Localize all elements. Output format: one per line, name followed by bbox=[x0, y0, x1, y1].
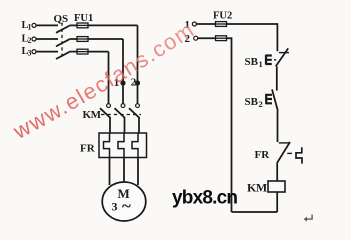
label FU2 bbox=[213, 11, 232, 22]
small gray return-arrow mark bbox=[304, 215, 313, 222]
wire KM coil to bottom bbox=[276, 192, 278, 212]
svg-text:FU2: FU2 bbox=[213, 11, 232, 22]
wire QS pole3 to FU1 bbox=[70, 51, 78, 53]
FR link dash bbox=[287, 152, 292, 154]
switch QS label bbox=[54, 13, 69, 25]
thermal relay FR label bbox=[80, 143, 96, 155]
FR heater element 3 bbox=[132, 133, 138, 158]
KM contact pole 3 bbox=[136, 104, 140, 108]
KM contact pole 2 bbox=[121, 104, 125, 108]
label L3 bbox=[22, 46, 32, 58]
KM contact pole 1 bbox=[107, 104, 111, 108]
svg-text:KM: KM bbox=[83, 109, 102, 121]
fuse FU2-2 bbox=[216, 36, 227, 41]
fuse FU1-1 bbox=[77, 23, 88, 28]
wire FR to motor (left) bbox=[109, 158, 111, 186]
pushbutton SB1 label bbox=[245, 56, 263, 69]
wire L1 to QS bbox=[36, 24, 58, 26]
wire FR to motor (right) bbox=[137, 158, 139, 186]
label L2 bbox=[22, 34, 32, 46]
wire FU1-1 output to corner bbox=[77, 24, 138, 26]
svg-text:3: 3 bbox=[112, 200, 118, 214]
left rail of control loop bbox=[227, 38, 232, 212]
fuse FU1-2 bbox=[77, 37, 88, 42]
wire SB2 to FR contact bbox=[277, 111, 279, 142]
node 2 junction dot bbox=[135, 80, 140, 85]
wire FU1-3 output to corner bbox=[77, 51, 109, 53]
QS blade pole 2 bbox=[56, 39, 70, 46]
SB2 actuator E bbox=[266, 94, 272, 104]
svg-text:QS: QS bbox=[54, 13, 69, 25]
coil KM label (control) bbox=[247, 181, 267, 195]
motor M circle bbox=[102, 182, 146, 221]
wire KM pole3 to FR bbox=[138, 118, 140, 134]
wire KM pole1 to FR bbox=[109, 118, 111, 134]
SB2 NO contact blade bbox=[272, 89, 278, 110]
wire phase2 vertical bbox=[122, 39, 124, 104]
wire FR to KM coil bbox=[276, 163, 278, 181]
motor label 3~ bbox=[112, 197, 132, 216]
terminal 2 label (control) bbox=[185, 33, 191, 45]
thermal contact FR label (control) bbox=[255, 149, 271, 161]
wire QS pole1 to FU1 bbox=[70, 24, 78, 26]
FR heater element 2 bbox=[118, 133, 124, 158]
label FU1 bbox=[74, 13, 93, 24]
FR box bbox=[99, 133, 147, 158]
KM mechanical link (dashed) bbox=[101, 114, 141, 116]
svg-text:~: ~ bbox=[122, 197, 131, 216]
wire KM pole2 to FR bbox=[124, 118, 126, 134]
svg-text:FR: FR bbox=[80, 143, 96, 155]
bottom wire of control loop bbox=[232, 211, 278, 213]
QS mechanical link (dashed) bbox=[61, 23, 63, 59]
SB1 NC contact blade bbox=[276, 48, 289, 66]
wire SB1 to SB2 bbox=[276, 66, 278, 90]
svg-text:2: 2 bbox=[28, 36, 32, 45]
SB1 actuator E bbox=[266, 55, 272, 65]
svg-text:1: 1 bbox=[28, 23, 32, 32]
FR heater element 1 bbox=[104, 133, 110, 158]
terminal 2 circle bbox=[194, 36, 198, 40]
contactor KM label bbox=[83, 109, 102, 121]
wire FU2 to right rail bbox=[227, 24, 278, 51]
wire L3 to QS bbox=[36, 51, 58, 53]
svg-text:FR: FR bbox=[255, 149, 271, 161]
node 2 label bbox=[131, 77, 137, 89]
svg-text:2: 2 bbox=[259, 99, 263, 109]
wire L2 to QS bbox=[36, 38, 58, 40]
QS blade pole 3 bbox=[56, 52, 70, 59]
svg-text:www.elecfans.com: www.elecfans.com bbox=[8, 16, 199, 144]
pushbutton SB2 label bbox=[245, 96, 263, 109]
terminal 1 circle bbox=[192, 22, 196, 26]
node 1 label bbox=[114, 77, 120, 89]
motor label M bbox=[118, 186, 130, 201]
wire QS pole2 to FU1 bbox=[70, 38, 78, 40]
node 1 junction dot bbox=[120, 80, 125, 85]
FR contact stop tick bbox=[279, 142, 290, 144]
terminal 1 label (control) bbox=[185, 19, 191, 31]
svg-text:SB: SB bbox=[245, 96, 259, 108]
wire FU1-2 output to corner bbox=[77, 38, 123, 40]
fuse FU1-3 bbox=[77, 49, 88, 54]
svg-text:3: 3 bbox=[28, 49, 32, 58]
coil KM rectangle bbox=[268, 181, 285, 192]
FR contact blade bbox=[277, 142, 290, 163]
wire terminal1 to FU2 bbox=[197, 23, 216, 25]
SB1 link dash bbox=[274, 59, 276, 61]
wire FR to motor (middle) bbox=[123, 158, 125, 183]
wire phase3 vertical bbox=[108, 52, 110, 104]
terminal L3 bbox=[32, 50, 36, 54]
svg-text:KM: KM bbox=[247, 181, 267, 195]
wire terminal2 to FU2-2 bbox=[198, 37, 216, 39]
wire phase1 vertical bbox=[137, 25, 139, 103]
QS blade pole 1 bbox=[56, 26, 70, 33]
SB1 NC contact stop tick bbox=[279, 52, 289, 54]
terminal L1 bbox=[32, 23, 36, 27]
label L1 bbox=[22, 20, 32, 32]
FR thermal element symbol bbox=[296, 147, 302, 163]
fuse FU2-1 bbox=[216, 22, 227, 27]
svg-text:ybx8.cn: ybx8.cn bbox=[172, 188, 237, 209]
svg-text:1: 1 bbox=[259, 59, 263, 69]
terminal L2 bbox=[32, 37, 36, 41]
svg-text:SB: SB bbox=[245, 56, 259, 68]
